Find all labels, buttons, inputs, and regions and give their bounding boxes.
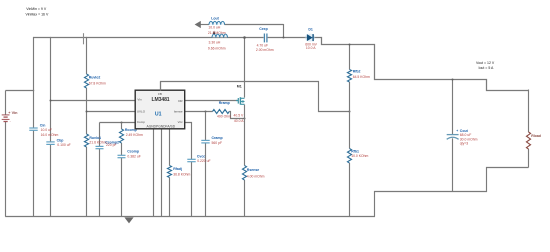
svg-text:Cramp: Cramp [212,136,223,140]
wire cramp chain upper [205,112,207,141]
wire ccomp lower [121,158,123,217]
wire uvlo divider upper [86,37,88,74]
svg-text:LM3481: LM3481 [151,97,169,103]
wire vin lower lead [5,122,7,217]
svg-text:UVLO: UVLO [137,109,146,113]
wire ccomp2 chain [99,123,101,217]
wire rload upper [528,90,530,133]
output spec text [476,61,495,70]
wire rload lower [528,149,530,168]
svg-text:10.0 uF: 10.0 uF [41,128,53,132]
svg-text:Rfb1: Rfb1 [351,150,359,154]
wire diode cathode to vout corner [314,38,529,91]
svg-text:VinMin = 9 V: VinMin = 9 V [26,7,47,11]
svg-text:0.220 uF: 0.220 uF [197,159,210,163]
svg-text:Cexp: Cexp [259,27,268,31]
wire rfb middle [349,82,351,149]
wire rfb1 lower [349,163,351,217]
wire pgnd stub [161,129,163,216]
wire rramp elbow [229,112,245,120]
svg-text:0.382 uF: 0.382 uF [127,154,140,158]
wire input rail [34,37,264,39]
wire cout upper [452,79,454,135]
wire vin pin [50,100,136,102]
svg-text:4.70 uF: 4.70 uF [257,43,269,47]
capacitor Cbp [46,139,70,147]
wire agnd stub [153,129,155,216]
input spec text [26,7,49,16]
svg-text:Vin: Vin [137,98,142,102]
svg-text:Rfb2: Rfb2 [353,70,361,74]
svg-text:220 pF: 220 pF [106,143,117,147]
resistor Rcomp [119,128,143,143]
diode D1 [305,27,318,50]
wire dr gate [185,100,238,102]
svg-text:3.30 uH: 3.30 uH [209,41,221,45]
op-amp U1 LM3481 body [135,90,185,129]
svg-text:+ Vin: + Vin [8,111,18,115]
svg-text:U1: U1 [155,111,162,117]
wire ground rail [5,216,375,218]
svg-text:10.0 uH: 10.0 uH [208,26,220,30]
wire left rail drop x=33.7 [33,37,35,128]
capacitor Cin [29,124,58,137]
wire left rail below Cin [33,131,35,217]
wire uvlo divider lower [86,147,88,217]
svg-text:Cin: Cin [40,124,46,128]
wire rfadj lower [169,178,171,217]
svg-text:560 pF: 560 pF [212,141,223,145]
svg-text:Rsense: Rsense [247,168,260,172]
wire uvlo pin [86,111,136,113]
svg-text:10.0 KOhm: 10.0 KOhm [351,154,368,158]
svg-text:Lout: Lout [211,16,219,20]
svg-text:21.6 KOhm: 21.6 KOhm [89,141,106,145]
voltage source Vin [2,111,18,123]
inductor Lout [208,16,226,35]
svg-text:10.0 A: 10.0 A [306,46,316,50]
svg-text:D1: D1 [308,27,313,31]
wire vin top [6,90,35,92]
resistor Rramp [213,101,232,118]
svg-text:16.0 mOhm: 16.0 mOhm [41,133,59,137]
svg-text:AGNDPGNDFA/SD: AGNDPGNDFA/SD [147,125,176,129]
capacitor Ccomp [118,150,141,159]
wire vin upper lead [5,91,7,115]
svg-text:FB: FB [158,92,162,96]
svg-text:Ruvlo1: Ruvlo1 [89,136,101,140]
resistor Ruvlo1 [84,134,106,147]
svg-text:-: - [10,120,11,124]
svg-text:Rfadj: Rfadj [173,167,182,171]
svg-text:36.8 KOhm: 36.8 KOhm [173,172,190,176]
svg-text:40.0 A: 40.0 A [234,119,244,123]
svg-text:0.100 uF: 0.100 uF [57,143,70,147]
ground [124,217,133,223]
svg-text:+: + [456,129,458,133]
inductor L1 [208,34,228,50]
svg-text:Ruvlo2: Ruvlo2 [89,75,101,79]
capacitor Ccomp2 [96,141,120,149]
capacitor Cout [447,129,478,145]
svg-text:Cbp: Cbp [57,139,64,143]
resistor Rfb1 [347,149,368,164]
svg-text:64.5 KOhm: 64.5 KOhm [353,75,370,79]
wire rfb2 upper [349,44,351,70]
wire cramp chain lower [205,143,207,217]
wire upper winding line [199,24,284,39]
svg-text:Comp: Comp [137,120,145,124]
resistor Rfb2 [347,70,370,83]
svg-text:9.66 mOhm: 9.66 mOhm [208,46,226,50]
pin FB stub [160,82,162,91]
wire cout lower [452,138,454,192]
svg-text:M1: M1 [237,85,242,89]
svg-text:Iout = 5 A: Iout = 5 A [479,66,495,70]
wire ground staircase [375,168,529,217]
capacitor Cramp [201,136,222,145]
svg-text:40.5 V: 40.5 V [234,114,245,118]
resistor Rfadj [167,166,190,178]
svg-text:qty=3: qty=3 [460,141,469,145]
svg-text:Cvcc: Cvcc [197,154,205,158]
wire isense [185,111,213,113]
svg-text:4.00 mOhm: 4.00 mOhm [247,175,265,179]
svg-text:67.8 KOhm: 67.8 KOhm [89,81,106,85]
wire m1 source [244,105,246,166]
wire fa/sd stub upper [169,129,171,165]
svg-text:Ccomp: Ccomp [127,150,139,154]
transistor M1 [234,85,245,123]
wire cbp drop upper [50,37,52,142]
wire rcomp upper [121,123,123,130]
capacitor Cvcc [187,154,210,163]
capacitor Cexp [256,27,274,52]
resistor Ruvlo2 [84,74,106,88]
wire uvlo divider middle [86,88,88,134]
wire rail cexp-to-diode [268,37,307,39]
wire comp pin [100,122,136,124]
arrow left connector [195,21,201,28]
wire cbp drop lower [50,145,52,217]
svg-text:Rramp: Rramp [219,101,230,105]
wire m1 drain [243,36,246,97]
resistor Rsense [242,166,264,181]
svg-text:VinMax = 16 V: VinMax = 16 V [26,13,49,17]
svg-text:Vout = 12 V: Vout = 12 V [476,61,495,65]
svg-text:Rload: Rload [531,134,541,138]
svg-text:2.49 KOhm: 2.49 KOhm [126,133,143,137]
stub tick [83,33,85,44]
wire rsense lower [244,180,246,217]
resistor Rload [526,132,540,149]
wire vcc [185,123,192,160]
wire fb route [161,82,351,113]
svg-text:2.00 mOhm: 2.00 mOhm [256,48,274,52]
svg-text:Isense: Isense [174,109,183,113]
wire cvcc lower [191,162,193,217]
svg-text:400 Ohm: 400 Ohm [217,115,231,119]
wire rcomp-ccomp middle [121,143,123,155]
svg-text:Vcc: Vcc [178,120,184,124]
